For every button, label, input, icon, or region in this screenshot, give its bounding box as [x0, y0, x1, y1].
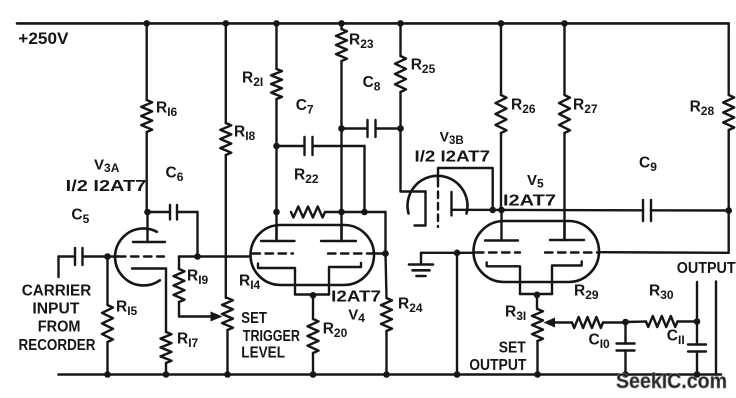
node R23-C8: [338, 125, 345, 132]
wire C6/R19 node to V4 grid: [179, 255, 251, 257]
svg-text:INPUT: INPUT: [32, 301, 79, 318]
wire R22 node to V4 grid drop: [365, 211, 386, 213]
V4 right plate: [321, 240, 356, 242]
svg-text:SET: SET: [241, 310, 267, 327]
resistor R15: [106, 257, 108, 306]
resistor R21: [275, 23, 277, 69]
wire grid node down to ground rail: [456, 253, 458, 375]
svg-text:OUTPUT: OUTPUT: [677, 260, 736, 277]
triode V3A envelope: [115, 228, 160, 285]
node pot-ground: [224, 371, 231, 378]
V3B grid (dashed, vertical): [437, 180, 439, 227]
V3A cathode lead: [165, 269, 167, 333]
node grid-C5-R15: [104, 253, 111, 260]
V3A cathode: [132, 267, 166, 269]
V5 left plate: [485, 239, 518, 241]
capacitor C7: [277, 145, 305, 147]
ground: [420, 253, 422, 264]
node V5 cathode-R31: [534, 292, 541, 299]
V4 grid (dashed): [253, 252, 294, 254]
capacitor C11: [696, 322, 698, 345]
node V3A plate / C6: [144, 209, 151, 216]
V3B cathode lead / coupling bus wire: [452, 209, 729, 212]
wire +250V supply rail: [17, 22, 729, 25]
capacitor C8: [342, 127, 368, 129]
node C11-ground: [694, 371, 701, 378]
resistor R19: [178, 257, 180, 270]
node grid loop on bus: [489, 207, 496, 214]
resistor R29: [572, 317, 603, 328]
svg-text:+250V: +250V: [18, 30, 68, 48]
V4 cathode tie: [295, 293, 329, 295]
node R20-ground: [310, 371, 317, 378]
svg-text:FROM: FROM: [38, 319, 81, 336]
svg-text:I/2 I2AT7: I/2 I2AT7: [66, 178, 147, 195]
wire grid node to V5: [457, 252, 475, 254]
V3B plate: [415, 192, 426, 226]
resistor R23: [340, 23, 342, 29]
V5 grid (dashed): [476, 251, 520, 253]
V3A grid lead: [108, 255, 119, 257]
V3B cathode: [450, 192, 452, 216]
node R29-R30-C10: [622, 319, 629, 326]
node rail-R16: [143, 20, 150, 27]
resistor R24: [386, 254, 387, 299]
node V4 cathode-R20: [310, 292, 317, 299]
dual triode V4 envelope: [251, 225, 375, 285]
svg-text:I/2 I2AT7: I/2 I2AT7: [415, 149, 491, 166]
resistor R18: [225, 23, 227, 123]
resistor R28: [728, 23, 730, 95]
V5 cathode tie: [520, 293, 552, 295]
V3B grid lead loop: [438, 168, 493, 210]
V5 right plate: [550, 239, 584, 241]
svg-text:SET: SET: [499, 340, 526, 357]
node R31-ground: [534, 371, 541, 378]
wire R28 bottom to V5 grid wire: [599, 251, 729, 254]
node V5 grid-ground-rail: [454, 250, 461, 257]
V5 left cathode: [487, 263, 520, 295]
svg-text:SeekIC.com: SeekIC.com: [616, 370, 727, 393]
node V4 grid-R24: [382, 250, 389, 257]
potentiometer R31: [536, 295, 538, 309]
svg-text:CARRIER: CARRIER: [22, 282, 92, 299]
node R22-V4 right plate: [338, 209, 345, 216]
resistor R22: [291, 207, 325, 218]
svg-text:LEVEL: LEVEL: [241, 345, 285, 362]
R31 wiper arrow: [550, 321, 572, 323]
node C8-R25: [397, 125, 404, 132]
V4 left cathode: [258, 264, 295, 295]
svg-text:I2AT7: I2AT7: [503, 193, 556, 210]
V5 left plate lead: [500, 210, 502, 241]
V4 right cathode: [329, 263, 361, 295]
capacitor C10: [624, 322, 626, 344]
capacitor C9: [644, 204, 650, 217]
wire ground rail: [59, 373, 722, 376]
svg-text:I2AT7: I2AT7: [331, 289, 381, 306]
node rail-R23: [338, 20, 345, 27]
resistor R26: [500, 23, 502, 95]
node rail-R26: [498, 20, 505, 27]
wire V5 grid to ground: [421, 252, 457, 254]
output terminal (signal): [696, 282, 698, 322]
wiper arm of trigger pot (arrow): [179, 315, 212, 317]
resistor R30: [646, 316, 678, 327]
potentiometer R14 SET TRIGGER LEVEL: [222, 298, 233, 330]
resistor R25: [399, 23, 401, 56]
resistor R17: [161, 332, 172, 363]
V5 right plate lead: [563, 221, 565, 240]
node rail-R21: [273, 20, 280, 27]
svg-text:RECORDER: RECORDER: [19, 337, 96, 354]
node R21-C7: [273, 143, 280, 150]
capacitor C5: [83, 255, 108, 257]
input terminal stub: [57, 257, 59, 278]
V3A grid (dashed): [118, 255, 164, 257]
node R24-ground: [383, 371, 390, 378]
node C6-R19-grid: [194, 253, 201, 260]
node C7-R22: [361, 209, 368, 216]
V4 right plate lead: [340, 225, 342, 241]
node rail-R18: [223, 20, 230, 27]
wire R25 to V3B plate: [399, 129, 401, 192]
node R30-C11-output: [694, 318, 701, 325]
node R17-ground: [163, 371, 170, 378]
svg-text:OUTPUT: OUTPUT: [469, 357, 527, 374]
capacitor C6: [148, 211, 170, 213]
node R26 / V5 left plate on bus: [498, 207, 505, 214]
V4 left plate lead: [275, 212, 277, 241]
node C9-R28: [725, 207, 732, 214]
V4 grid right lead: [373, 252, 386, 254]
output terminal (ground): [715, 282, 717, 375]
resistor R27: [563, 23, 565, 95]
node C10-ground: [622, 371, 629, 378]
node rail-R25: [397, 20, 404, 27]
V4 left plate lead: [275, 225, 277, 241]
svg-text:TRIGGER: TRIGGER: [243, 328, 300, 345]
V5 right cathode: [552, 262, 582, 295]
resistor R20: [312, 295, 314, 319]
resistor R16: [145, 23, 147, 100]
V4 left plate: [261, 240, 295, 242]
dual triode V5 envelope: [474, 221, 600, 282]
triode V3B envelope: [408, 176, 468, 214]
node R21-R22: [273, 209, 280, 216]
V3A plate: [133, 241, 165, 243]
node R15-ground: [104, 371, 111, 378]
node rail-R27: [561, 20, 568, 27]
